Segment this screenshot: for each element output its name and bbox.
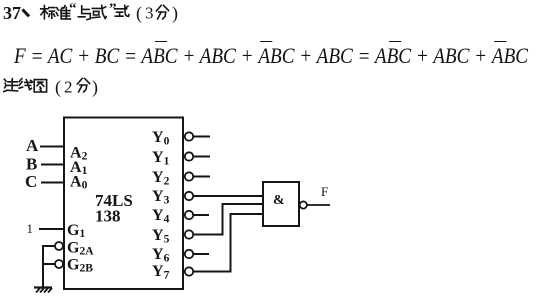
svg-text:C: C — [25, 172, 37, 191]
svg-text:2: 2 — [64, 78, 73, 97]
wire Y4 stub — [193, 214, 209, 216]
准 — [56, 6, 70, 19]
svg-text:): ) — [92, 77, 98, 98]
wire Y2 stub — [193, 176, 210, 178]
图 — [34, 80, 46, 92]
wire C to A0 — [41, 182, 64, 184]
分 — [156, 5, 168, 19]
svg-text:1: 1 — [27, 221, 34, 236]
title line: 37、标准"与或"式（3 分） — [0, 0, 200, 26]
pin Y5 bubble — [185, 230, 193, 238]
pin Y6 bubble — [185, 250, 193, 258]
svg-text:138: 138 — [95, 207, 121, 226]
pin G2B bubble — [55, 260, 63, 268]
wire A to A2 — [40, 146, 64, 148]
svg-text:Y1: Y1 — [152, 149, 170, 168]
svg-text:“: “ — [69, 1, 77, 17]
wire Y0 stub — [193, 136, 210, 138]
pin Y2 bubble — [185, 172, 193, 180]
svg-text:Y0: Y0 — [152, 129, 170, 148]
decoder U1 74LS138 body — [64, 118, 183, 290]
或 — [92, 5, 106, 18]
ground — [34, 288, 52, 293]
caption line: 连线图（2 分） — [0, 76, 120, 100]
svg-text:Y6: Y6 — [152, 246, 170, 265]
svg-text:&: & — [273, 193, 285, 208]
与 — [78, 6, 90, 20]
circuit schematic — [0, 100, 543, 308]
wire G2B to ground rail — [43, 263, 55, 265]
wire G2A to ground rail — [43, 246, 55, 287]
svg-text:B: B — [26, 155, 37, 174]
svg-text:(: ( — [55, 77, 61, 98]
pin Y3 bubble — [185, 192, 193, 200]
pin Y7 bubble — [185, 267, 193, 275]
wire Y1 stub — [193, 156, 210, 158]
svg-text:G2A: G2A — [67, 240, 94, 258]
pin Y1 bubble — [185, 152, 193, 160]
wire Y6 stub — [193, 253, 209, 255]
pin Y0 bubble — [185, 132, 193, 140]
标 — [41, 6, 55, 19]
wire Y7 to gate input 3 — [193, 214, 263, 272]
svg-text:A: A — [26, 136, 39, 155]
gate U2 output bubble — [300, 201, 307, 208]
gate U2 AND body — [263, 182, 299, 226]
svg-text:Y3: Y3 — [152, 188, 170, 207]
式 — [115, 5, 129, 16]
、 — [24, 11, 29, 16]
wire Y3 to gate input 1 — [193, 195, 263, 197]
svg-text:): ) — [172, 3, 178, 24]
wire 1 to G1 — [39, 228, 64, 230]
svg-text:3: 3 — [145, 4, 154, 23]
svg-text:(: ( — [136, 3, 142, 24]
svg-text:Y7: Y7 — [152, 263, 170, 282]
pin Y4 bubble — [185, 211, 193, 219]
wire gate to F — [307, 204, 330, 206]
wire B to A1 — [41, 164, 64, 166]
svg-text:G1: G1 — [67, 222, 85, 240]
svg-text:Y2: Y2 — [152, 169, 170, 188]
wire Y5 to gate input 2 — [193, 204, 263, 235]
连 — [4, 79, 18, 92]
svg-text:G2B: G2B — [67, 257, 93, 275]
svg-text:F: F — [321, 184, 328, 199]
boolean formula — [14, 45, 528, 67]
pin G2A bubble — [55, 242, 63, 250]
svg-text:Y4: Y4 — [152, 207, 170, 226]
svg-text:37: 37 — [3, 3, 21, 23]
分 — [77, 78, 89, 92]
线 — [19, 79, 32, 90]
svg-text:Y5: Y5 — [152, 227, 170, 246]
